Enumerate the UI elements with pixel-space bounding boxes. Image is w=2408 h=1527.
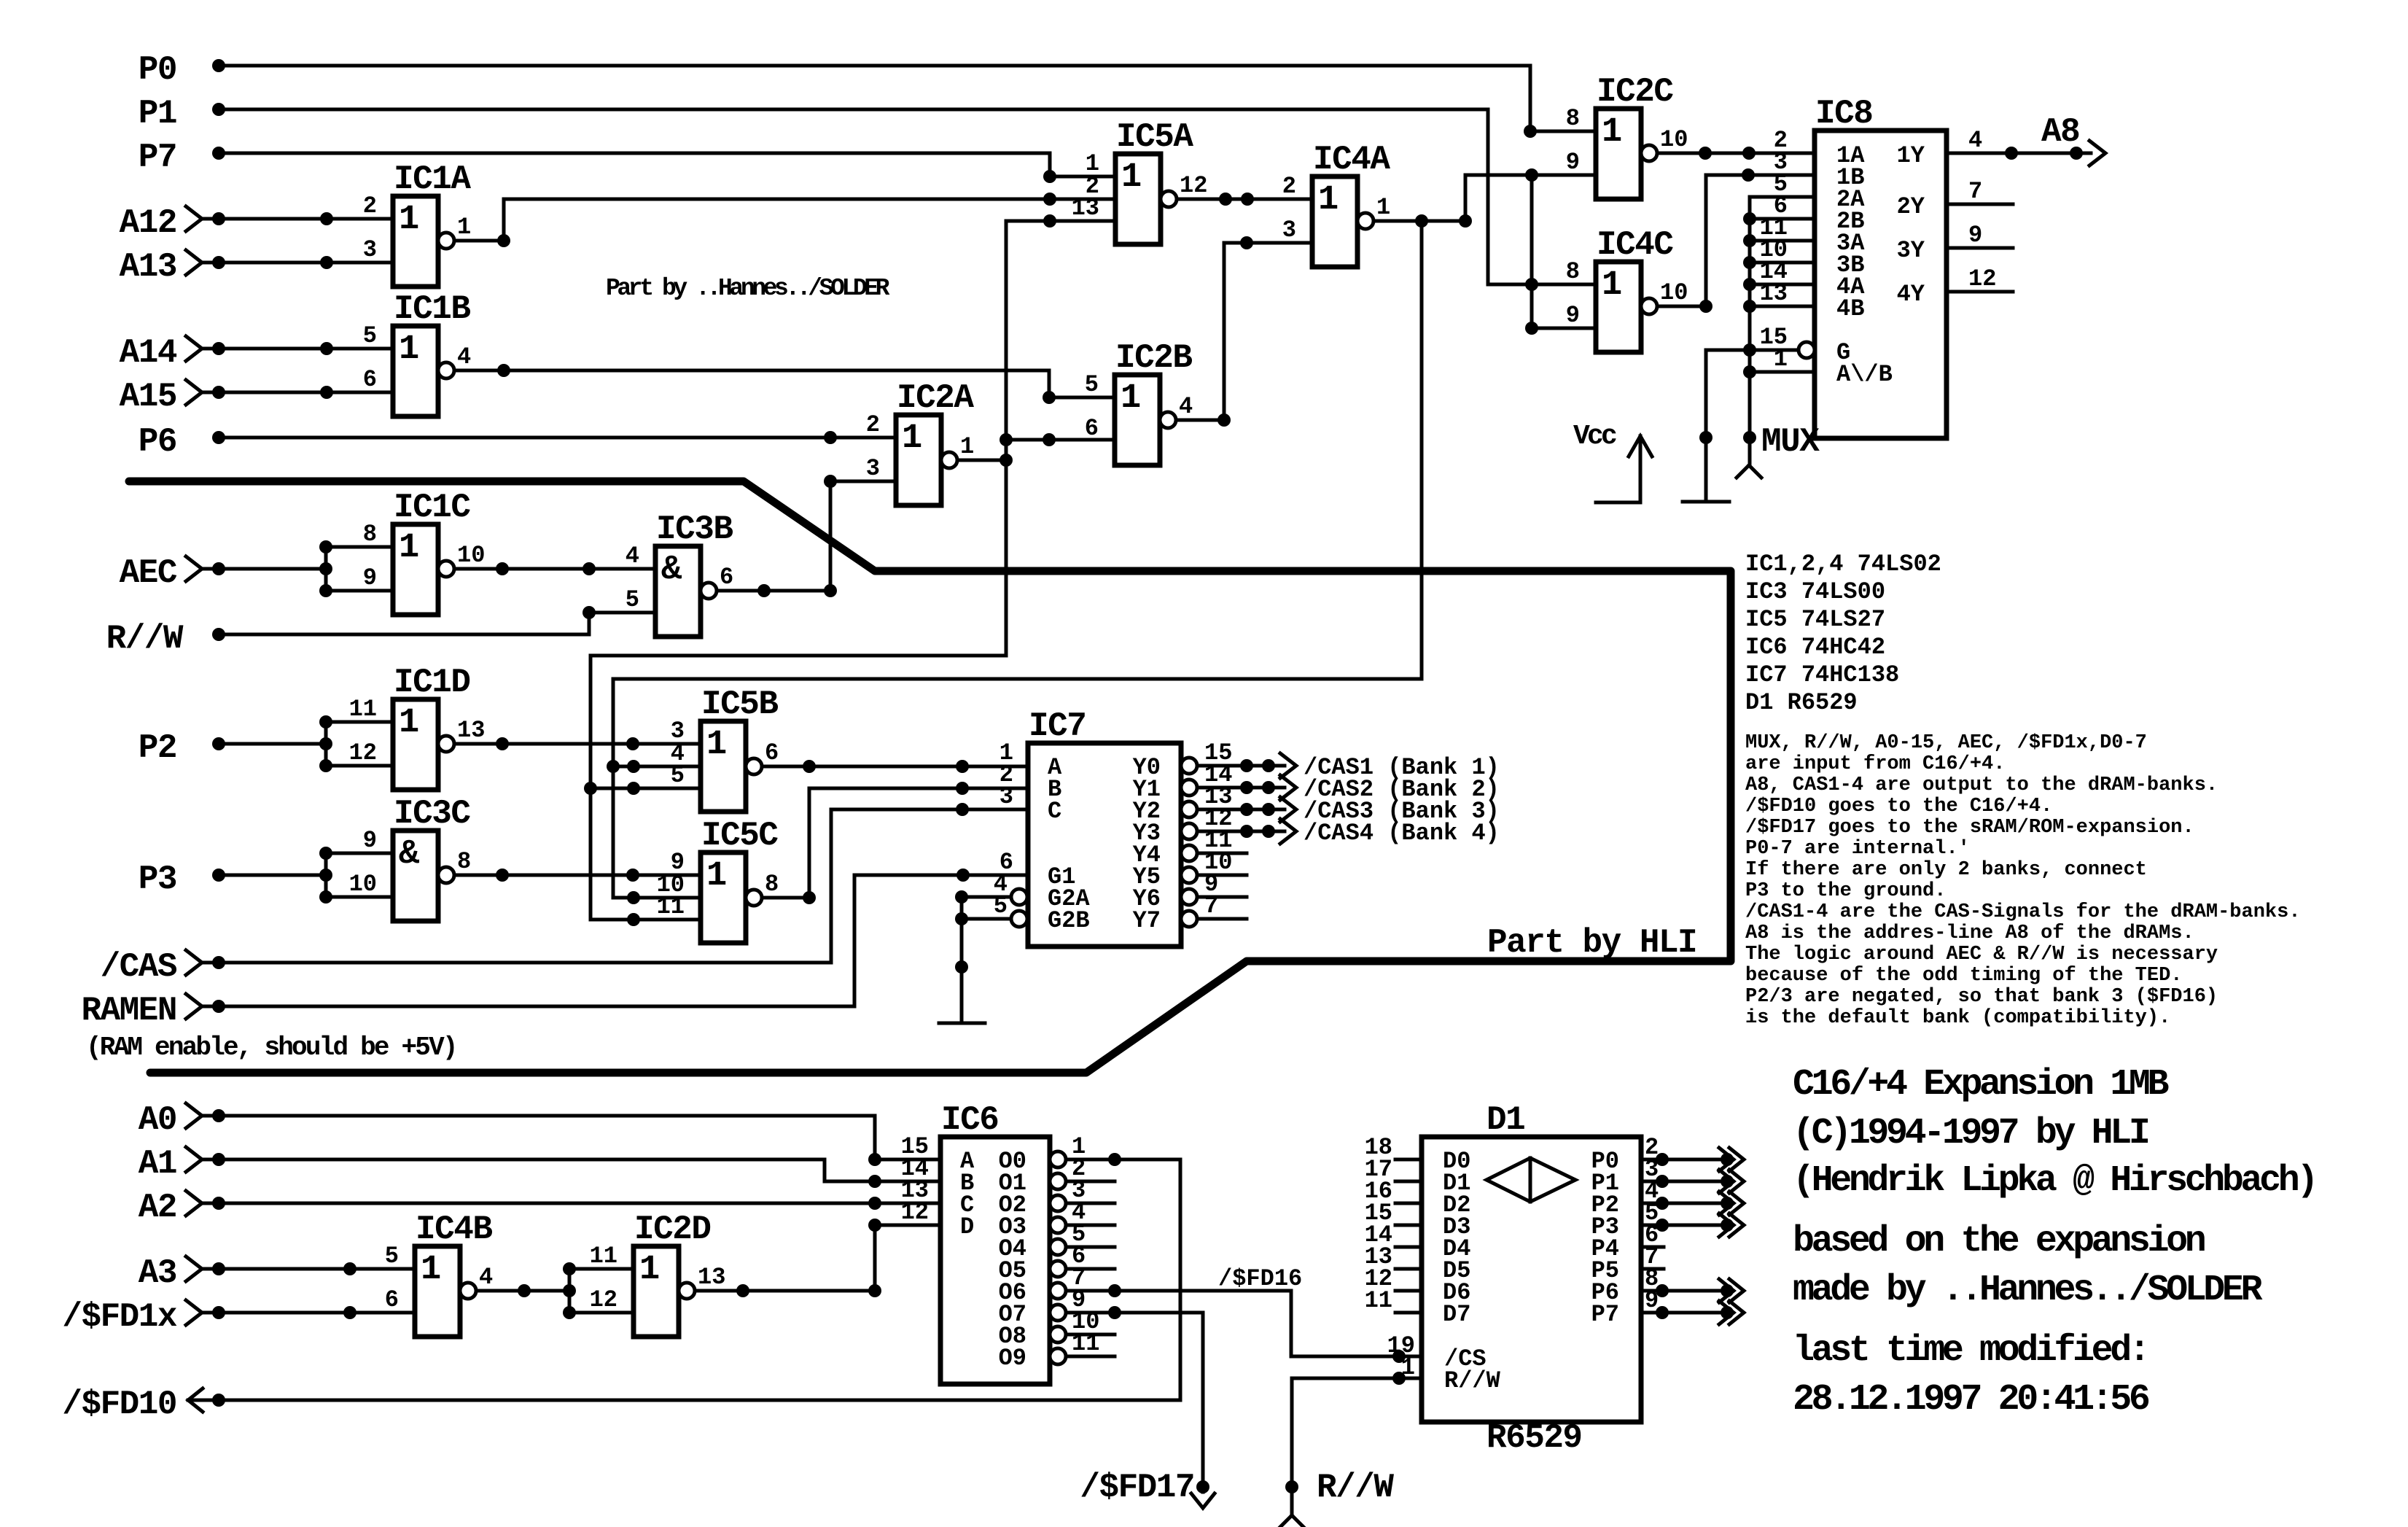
svg-text:P6: P6: [139, 423, 176, 461]
text block title: [1793, 1064, 2315, 1421]
wire IC1D output to IC5B pin 3: [454, 737, 701, 750]
svg-text:11: 11: [657, 893, 685, 920]
port P3: [139, 860, 225, 898]
wire IC4C output to IC8 pin 1B: [1657, 168, 1815, 313]
svg-text:4: 4: [479, 1264, 493, 1291]
port AEC: [120, 554, 225, 592]
svg-text:R//W: R//W: [106, 620, 184, 658]
svg-text:3: 3: [363, 236, 377, 263]
wire IC5B output to IC7 pin A: [760, 760, 1028, 773]
gate IC4A: [1282, 141, 1391, 267]
svg-text:2: 2: [1282, 173, 1296, 200]
svg-text:P7: P7: [1591, 1301, 1619, 1328]
port P6: [139, 423, 225, 461]
svg-text:are input from C16/+4.: are input from C16/+4.: [1745, 753, 2005, 775]
port A0: [139, 1101, 225, 1139]
wire D1 P stub: [1641, 1246, 1664, 1249]
svg-text:8: 8: [457, 848, 471, 875]
svg-text:13: 13: [1072, 195, 1099, 222]
svg-text:1: 1: [960, 433, 974, 460]
svg-text:6: 6: [720, 564, 733, 591]
wire IC7 output stub: [1197, 852, 1247, 855]
svg-text:P2: P2: [139, 729, 176, 767]
svg-text:A12: A12: [120, 204, 176, 242]
gate IC5A: [1072, 118, 1208, 244]
svg-text:MUX: MUX: [1761, 423, 1820, 461]
svg-text:13: 13: [1760, 280, 1788, 307]
svg-text:1: 1: [1602, 266, 1622, 305]
svg-text:AEC: AEC: [120, 554, 177, 592]
svg-text:4: 4: [626, 543, 639, 570]
wire IC7 G2A/G2B tie to ground: [955, 890, 1011, 1023]
svg-text:IC2A: IC2A: [897, 379, 974, 417]
wire MUX chain to IC8 pins 2A-4B and A/B: [1737, 197, 1815, 478]
port A2: [139, 1189, 225, 1227]
gate IC3C: [349, 795, 472, 921]
svg-text:4: 4: [457, 343, 471, 370]
wire IC2B output to IC4A pin 3: [1176, 236, 1312, 427]
svg-text:3Y: 3Y: [1897, 237, 1925, 264]
svg-text:28.12.1997 20:41:56: 28.12.1997 20:41:56: [1793, 1379, 2149, 1421]
wire P2 net with input tie: [219, 715, 393, 772]
svg-text:13: 13: [457, 717, 485, 744]
wire IC7 Y2 output /CAS3: [1197, 797, 1296, 822]
wire RAMEN net to IC7 pin G1: [219, 869, 1028, 1006]
wire A2 net: [219, 1197, 940, 1210]
svg-text:IC1,2,4 74LS02: IC1,2,4 74LS02: [1745, 551, 1941, 578]
svg-text:based on the expansion: based on the expansion: [1793, 1221, 2205, 1262]
svg-text:IC4A: IC4A: [1313, 141, 1390, 179]
svg-text:9: 9: [363, 564, 377, 591]
bidirectional diamond symbol: [1487, 1158, 1575, 1202]
svg-text:3: 3: [1000, 783, 1013, 810]
port /CAS: [101, 948, 225, 986]
op IC8 multiplexer: [1760, 95, 1997, 438]
wire /$FD1x net: [219, 1306, 415, 1319]
wire IC6 output stub: [1066, 1202, 1115, 1205]
svg-text:A0: A0: [139, 1101, 176, 1139]
Vcc symbol: [1573, 421, 1652, 502]
svg-text:11: 11: [349, 696, 377, 723]
gate IC4B: [385, 1211, 493, 1337]
svg-text:6: 6: [363, 366, 377, 393]
wire R//W bottom port to D1 pin 1: [1279, 1372, 1422, 1527]
svg-text:4B: 4B: [1836, 295, 1864, 322]
wire IC7 output stub: [1197, 895, 1247, 899]
svg-text:IC7: IC7: [1029, 707, 1086, 745]
svg-text:8: 8: [765, 871, 779, 898]
wire A13 net: [219, 256, 393, 269]
wire IC6 output stub: [1066, 1224, 1115, 1227]
wire D1 P3 output arrow: [1641, 1213, 1744, 1237]
svg-text:made by ..Hannes../SOLDER: made by ..Hannes../SOLDER: [1793, 1270, 2263, 1311]
svg-text:IC1A: IC1A: [394, 160, 471, 198]
svg-text:A8: A8: [2041, 113, 2079, 151]
svg-text:A1: A1: [139, 1145, 176, 1183]
port P0: [139, 51, 225, 89]
svg-text:6: 6: [1085, 415, 1099, 442]
svg-text:12: 12: [349, 739, 377, 766]
svg-text:11: 11: [590, 1243, 617, 1270]
svg-text:Part by ..Hannes../SOLDER: Part by ..Hannes../SOLDER: [606, 275, 890, 302]
svg-text:12: 12: [901, 1199, 929, 1226]
wire IC8 1Y output A8: [1947, 141, 2105, 166]
ground symbol below IC7: [939, 1022, 985, 1025]
svg-text:2: 2: [363, 193, 377, 219]
svg-text:4Y: 4Y: [1897, 281, 1925, 308]
svg-text:12: 12: [590, 1286, 617, 1313]
svg-text:1: 1: [706, 726, 727, 764]
port A14: [120, 334, 225, 372]
svg-text:P3 to the ground.: P3 to the ground.: [1745, 880, 1946, 902]
wire IC6 O7 to /$FD17: [1066, 1306, 1215, 1508]
svg-text:(RAM enable, should be +5V): (RAM enable, should be +5V): [86, 1033, 456, 1062]
wire IC3B output net to IC2A pin 3: [717, 475, 896, 597]
svg-text:R//W: R//W: [1444, 1367, 1501, 1394]
svg-text:IC5C: IC5C: [701, 817, 778, 855]
gate IC2A: [866, 379, 975, 505]
wire P1 net: [219, 109, 1596, 291]
wire IC6 output stub: [1066, 1246, 1115, 1249]
svg-text:If there are only 2 banks, con: If there are only 2 banks, connect: [1745, 859, 2147, 881]
svg-text:A15: A15: [120, 378, 176, 416]
wire A14 net: [219, 342, 393, 355]
wire P0 net: [219, 66, 1596, 138]
text block description paragraph: [1745, 732, 2301, 1029]
svg-text:MUX, R//W, A0-15, AEC, /$FD1x,: MUX, R//W, A0-15, AEC, /$FD1x,D0-7: [1745, 732, 2147, 754]
svg-text:9: 9: [1566, 149, 1580, 176]
gate IC3B: [626, 510, 733, 637]
wire D1 P2 output arrow: [1641, 1192, 1744, 1215]
wire D1 P6 output arrow: [1641, 1279, 1744, 1302]
wire IC6 O6 to D1 /CS (/$FD16): [1066, 1284, 1422, 1363]
wire IC7 output stub: [1197, 874, 1247, 877]
svg-text:6: 6: [385, 1286, 399, 1313]
svg-text:because of the odd timing of t: because of the odd timing of the TED.: [1745, 965, 2183, 987]
svg-text:G2B: G2B: [1048, 907, 1090, 934]
svg-text:(C)1994-1997 by HLI: (C)1994-1997 by HLI: [1793, 1113, 2148, 1154]
port RAMEN: [81, 992, 225, 1030]
svg-text:1: 1: [399, 201, 419, 239]
wire IC8 G input to ground: [1699, 350, 1799, 502]
svg-text:1: 1: [421, 1251, 441, 1289]
svg-text:1: 1: [399, 529, 419, 567]
svg-text:1: 1: [902, 419, 922, 458]
port P2: [139, 729, 225, 767]
svg-text:1: 1: [639, 1251, 660, 1289]
svg-text:/$FD16: /$FD16: [1218, 1265, 1302, 1292]
svg-text:Y7: Y7: [1133, 907, 1161, 934]
svg-text:1: 1: [706, 857, 727, 895]
svg-text:10: 10: [1660, 279, 1688, 306]
svg-text:IC3 74LS00: IC3 74LS00: [1745, 578, 1885, 605]
svg-text:12: 12: [1968, 265, 1996, 292]
svg-text:D1: D1: [1487, 1101, 1524, 1139]
svg-text:/$FD10: /$FD10: [62, 1386, 176, 1423]
wire IC7 Y3 output /CAS4: [1197, 819, 1296, 844]
port P7: [139, 139, 225, 176]
svg-text:IC1C: IC1C: [394, 489, 470, 527]
svg-text:P0-7 are internal.': P0-7 are internal.': [1745, 838, 1970, 860]
svg-text:A2: A2: [139, 1189, 176, 1227]
wire A3 net: [219, 1262, 415, 1275]
svg-text:8: 8: [363, 521, 377, 548]
svg-text:10: 10: [349, 871, 377, 898]
svg-text:C16/+4 Expansion 1MB: C16/+4 Expansion 1MB: [1793, 1064, 2168, 1106]
svg-text:8: 8: [1566, 258, 1580, 285]
svg-text:IC5A: IC5A: [1116, 118, 1193, 156]
svg-text:9: 9: [363, 827, 377, 854]
svg-text:/$FD10 goes to the C16/+4.: /$FD10 goes to the C16/+4.: [1745, 796, 2052, 817]
svg-text:5: 5: [385, 1243, 399, 1270]
wire R//W net: [219, 606, 655, 634]
svg-text:A8, CAS1-4 are output to the d: A8, CAS1-4 are output to the dRAM-banks.: [1745, 774, 2218, 796]
svg-text:5: 5: [626, 586, 639, 613]
svg-text:Part by HLI: Part by HLI: [1487, 924, 1696, 962]
wire P7 net: [219, 153, 1115, 183]
svg-text:C: C: [1048, 798, 1061, 825]
ground symbol at IC8 G: [1683, 500, 1729, 504]
svg-text:5: 5: [363, 322, 377, 349]
gate IC2D: [590, 1211, 726, 1337]
svg-text:(Hendrik Lipka @ Hirschbach): (Hendrik Lipka @ Hirschbach): [1793, 1160, 2315, 1202]
wire IC2D output to IC6 pin D: [695, 1219, 940, 1297]
port P1: [139, 95, 225, 133]
svg-text:P2/3 are negated, so that bank: P2/3 are negated, so that bank 3 ($FD16): [1745, 986, 2218, 1008]
svg-text:D: D: [960, 1213, 974, 1240]
svg-text:IC5 74LS27: IC5 74LS27: [1745, 606, 1885, 633]
svg-text:12: 12: [1180, 172, 1207, 199]
svg-text:A\/B: A\/B: [1836, 361, 1893, 388]
svg-text:/CAS1-4 are the CAS-Signals fo: /CAS1-4 are the CAS-Signals for the dRAM…: [1745, 901, 2301, 923]
gate IC1B: [363, 290, 471, 416]
svg-text:IC8: IC8: [1815, 95, 1872, 133]
svg-text:IC1B: IC1B: [394, 290, 470, 328]
wire P6 net: [219, 431, 896, 444]
svg-text:7: 7: [1968, 178, 1982, 205]
gate IC2B: [1085, 339, 1193, 465]
gate IC2C: [1566, 73, 1688, 199]
wire IC8 2Y stub: [1947, 203, 2013, 206]
wire IC4B output to IC2D inputs: [476, 1262, 634, 1319]
svg-text:&: &: [399, 835, 420, 874]
svg-text:IC6 74HC42: IC6 74HC42: [1745, 634, 1885, 661]
gate IC5C: [657, 817, 779, 943]
gate IC4C: [1566, 226, 1688, 352]
wire IC6 output stub: [1066, 1180, 1115, 1184]
svg-text:P3: P3: [139, 860, 176, 898]
svg-text:1: 1: [1376, 194, 1390, 221]
svg-text:IC5B: IC5B: [701, 685, 778, 723]
svg-text:A3: A3: [139, 1254, 176, 1292]
op D1 R6529 port chip: [1365, 1101, 1659, 1457]
wire IC7 Y1 output /CAS2: [1197, 775, 1296, 800]
wire /CAS net to IC7 pin C: [219, 803, 1028, 963]
svg-text:A14: A14: [120, 334, 177, 372]
svg-text:9: 9: [1968, 222, 1982, 249]
svg-text:5: 5: [1085, 371, 1099, 398]
svg-text:P7: P7: [139, 139, 176, 176]
port A12: [120, 204, 225, 242]
svg-text:RAMEN: RAMEN: [81, 992, 176, 1030]
wire IC7 Y0 output /CAS1: [1197, 753, 1296, 778]
wire IC7 output stub: [1197, 917, 1247, 921]
wire IC8 4Y stub: [1947, 290, 2013, 294]
port /$FD10: [62, 1386, 225, 1423]
svg-text:1: 1: [1318, 181, 1339, 219]
svg-text:/CAS4 (Bank 4): /CAS4 (Bank 4): [1304, 820, 1500, 847]
svg-text:Vcc: Vcc: [1573, 421, 1616, 452]
wire IC6 output stub: [1066, 1355, 1115, 1359]
svg-text:A8 is the addres-line A8 of th: A8 is the addres-line A8 of the dRAMs.: [1745, 922, 2194, 944]
svg-text:1: 1: [1774, 346, 1788, 373]
svg-text:2: 2: [866, 411, 880, 438]
port A15: [120, 378, 225, 416]
wire A15 net: [219, 386, 393, 399]
svg-text:1: 1: [1121, 158, 1142, 197]
svg-text:10: 10: [457, 542, 485, 569]
svg-text:IC4C: IC4C: [1597, 226, 1673, 264]
svg-text:IC1D: IC1D: [394, 664, 469, 702]
wire D1 P1 output arrow: [1641, 1170, 1744, 1193]
svg-text:IC6: IC6: [941, 1101, 998, 1139]
gate IC1D: [349, 664, 486, 790]
svg-text:1: 1: [399, 704, 419, 742]
wire IC5A output to IC4A pin 2: [1177, 193, 1312, 206]
port A1: [139, 1145, 225, 1183]
svg-text:13: 13: [698, 1264, 725, 1291]
svg-text:1: 1: [399, 330, 419, 369]
wire D1 P stub: [1641, 1267, 1664, 1271]
svg-text:last time modified:: last time modified:: [1793, 1330, 2148, 1372]
svg-text:1: 1: [1121, 379, 1141, 418]
text block IC list: [1745, 551, 1941, 716]
svg-text:1Y: 1Y: [1897, 142, 1925, 169]
svg-text:IC2C: IC2C: [1597, 73, 1673, 111]
wire D1 P7 output arrow: [1641, 1301, 1744, 1324]
wire IC1A output to IC5A pin 2: [454, 193, 1115, 247]
wire A0 net: [219, 1116, 940, 1166]
svg-text:1: 1: [457, 214, 471, 241]
svg-text:The logic around AEC & R//W is: The logic around AEC & R//W is necessary: [1745, 944, 2218, 965]
svg-text:5: 5: [671, 762, 685, 789]
svg-text:O9: O9: [999, 1345, 1026, 1372]
gate IC1C: [363, 489, 486, 615]
wire IC3C output to IC5C pin 9: [454, 869, 701, 882]
wire IC2A output net X2: [584, 214, 1115, 926]
svg-text:IC2B: IC2B: [1115, 339, 1192, 377]
wire P3 net with input tie: [219, 847, 393, 904]
svg-text:11: 11: [1365, 1287, 1392, 1314]
svg-text:/$FD1x: /$FD1x: [62, 1298, 177, 1336]
svg-text:/$FD17 goes to the sRAM/ROM-ex: /$FD17 goes to the sRAM/ROM-expansion.: [1745, 817, 2194, 839]
svg-text:3: 3: [1282, 217, 1296, 244]
port A13: [120, 248, 225, 286]
svg-text:IC3C: IC3C: [394, 795, 470, 833]
port R//W: [106, 620, 225, 658]
svg-text:8: 8: [1566, 105, 1580, 132]
wire AEC net with input tie: [219, 540, 393, 597]
wire IC2C output to IC8 pin 1A: [1657, 147, 1815, 160]
svg-text:IC3B: IC3B: [656, 510, 733, 548]
svg-text:is the default bank (compatibi: is the default bank (compatibility).: [1745, 1007, 2170, 1029]
wire IC6 O0 to /$FD10: [219, 1153, 1180, 1400]
svg-text:10: 10: [1660, 126, 1688, 153]
svg-text:6: 6: [765, 739, 779, 766]
svg-text:/$FD17: /$FD17: [1080, 1469, 1194, 1507]
svg-text:P0: P0: [139, 51, 176, 89]
wire IC4A output net X1: [607, 168, 1596, 904]
svg-text:/CAS: /CAS: [101, 948, 177, 986]
svg-text:D1 R6529: D1 R6529: [1745, 689, 1858, 716]
wire A1 net: [219, 1159, 940, 1188]
wire IC1B output to IC2B pin 5: [454, 364, 1115, 404]
wire IC6 output stub: [1066, 1267, 1115, 1271]
svg-text:1: 1: [1401, 1354, 1415, 1381]
op IC6 74HC42 decoder: [901, 1101, 1100, 1384]
svg-text:3: 3: [866, 455, 880, 482]
svg-text:IC7 74HC138: IC7 74HC138: [1745, 661, 1899, 688]
svg-text:D7: D7: [1443, 1301, 1470, 1328]
svg-text:1: 1: [1602, 113, 1622, 152]
svg-text:&: &: [661, 551, 682, 589]
wire IC1C output to IC3B pin 4: [454, 562, 655, 575]
svg-text:9: 9: [1566, 302, 1580, 329]
wire IC8 3Y stub: [1947, 246, 2013, 250]
svg-text:P1: P1: [139, 95, 176, 133]
svg-text:R6529: R6529: [1487, 1419, 1582, 1457]
wire D1 P0 output arrow: [1641, 1148, 1744, 1171]
svg-text:4: 4: [1968, 127, 1982, 154]
op IC7 74HC138 decoder: [994, 707, 1233, 947]
gate IC5B: [671, 685, 779, 812]
wire IC6 output stub: [1066, 1333, 1115, 1337]
wire IC5C output to IC7 pin B: [760, 782, 1028, 904]
gate IC1A: [363, 160, 472, 287]
svg-text:4: 4: [1179, 393, 1193, 420]
wire A12 net: [219, 212, 393, 225]
svg-text:A13: A13: [120, 248, 176, 286]
svg-text:IC2D: IC2D: [634, 1211, 710, 1248]
svg-text:R//W: R//W: [1317, 1469, 1394, 1507]
svg-text:2Y: 2Y: [1897, 193, 1925, 220]
port /$FD1x: [62, 1298, 225, 1336]
thick divider border (Part by Hannes / Part by HLI): [129, 481, 1731, 1073]
port A3: [139, 1254, 225, 1292]
svg-text:IC4B: IC4B: [416, 1211, 492, 1248]
